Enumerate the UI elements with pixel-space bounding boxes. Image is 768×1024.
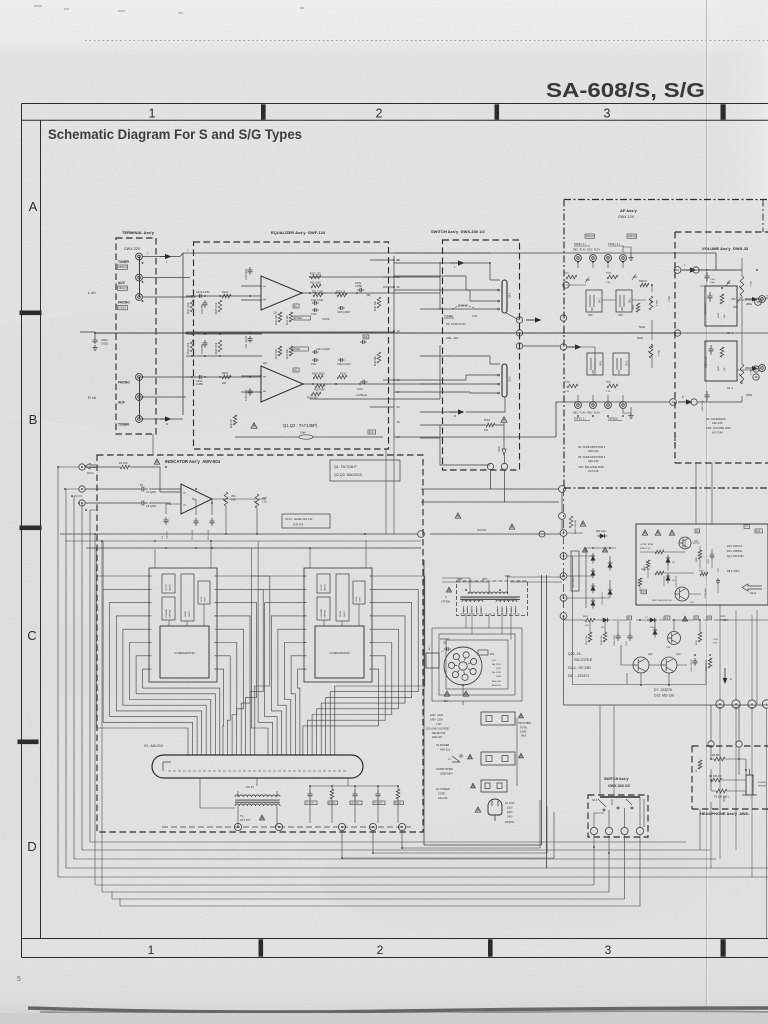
switch 2/2 terminal 1 [590,827,597,834]
resistor R118 200 [313,375,323,379]
junction dots [142,262,144,264]
resistor R286 [700,572,708,576]
node vol in R [691,399,697,405]
boxed 150mV a [585,234,595,238]
terminal assy GWX-329 block [116,238,156,434]
resistor R4b [396,789,400,799]
capacitor C263 [710,552,715,560]
resistor R280 [655,550,664,554]
wire switch L to AF [526,319,535,321]
grid tick left border A/B [20,311,42,316]
wire vol R [697,380,742,402]
wire bus node drops [342,800,554,858]
diode D9 zener [667,573,669,583]
comparator L box [160,626,209,678]
connector node 1 [398,823,405,830]
op-amp Q1 TA7136P [261,276,302,310]
node ind right [418,531,425,538]
grid tick left border C/D [18,740,39,745]
resistor R201 2.2k [566,275,577,279]
wire AUX L output [143,277,190,279]
resistor R3 22k [330,789,334,799]
indicator assy block [97,455,423,832]
fuse FU1 [478,650,488,655]
constant current R [317,597,330,620]
wire out 22 [370,259,394,261]
wire eq mid rail R [186,355,262,357]
pin wires right side R [303,576,425,755]
terminal jack bus L [139,257,141,298]
wire rail 541 [65,540,421,542]
resistor R302 470 [585,618,595,622]
boxed 26 [695,529,699,533]
diode D1 [592,553,594,563]
wire outer loop riser R [252,541,259,589]
headphone node a [708,741,714,747]
wire cap row top [310,785,398,787]
wire term4 down [120,835,640,906]
tape jack top 2 [590,255,597,262]
switch 2/2 terminal 3 [621,827,628,834]
arrow AF R out [567,346,575,348]
wire out 20 [370,406,394,408]
capacitor C106 220p [248,388,253,396]
warning tri sel [444,691,449,696]
rectifier cap C261 [571,551,579,591]
label T1 ATT-508 [446,587,451,592]
arrow R input [160,418,165,420]
connector node 9 [234,823,241,830]
node 31 [755,299,762,306]
wire sw bottom loop [420,425,490,465]
resistor R2 330 2W [711,778,722,782]
level shift B R [353,581,365,604]
node vol in L [693,267,699,273]
resistor R1 330 1W [716,789,727,793]
op-amp Q1 indicator [181,484,212,514]
left rail wire 5 [90,510,686,842]
grid tick top band [495,104,500,119]
diode D4 [592,598,594,608]
terminal jack AUX L [136,274,143,281]
wire mid rail 489 [421,488,559,490]
wire term2 down [102,835,609,892]
wire hp [711,747,746,809]
capacitor C102 2.2/50 [197,375,204,379]
boxed note Q1 TA7318-P [330,460,400,481]
wire TUNER R output [143,418,183,420]
resistor R295 [708,658,712,668]
boxed label 470k [294,316,310,320]
hollow arrow down [502,443,506,455]
capacitor C264 [693,658,698,666]
wire vr drops [166,499,257,534]
resistor R115 100 [311,275,321,279]
warning tri p1 [580,521,585,526]
capacitor C7 0.047 [308,790,313,800]
arrow volume R [678,401,686,403]
dust specks top edge [34,6,304,13]
wire volume to regulator a [695,463,697,524]
switch S3-2 [502,364,507,397]
wire mid rail 502 [421,501,559,503]
wire term1 down [95,835,594,885]
wire rect [567,533,616,608]
wire right col [757,610,767,938]
AF assy block bottom [564,487,768,489]
wire hp downs [711,708,752,877]
wire Q1 inputs [241,286,261,300]
power input enclosure [424,560,547,868]
resistor R105 100k [218,300,222,312]
wire eq left rail [182,253,184,415]
tape jack top 3 [605,255,612,262]
pot VR1-2 500k [649,344,653,358]
top grid band upper line [22,103,768,105]
wire ind top rail [60,533,418,535]
node 16b [516,343,522,349]
transistor Q24 [668,632,681,645]
loudness S9-1 box [705,286,737,326]
outlet third [481,780,507,792]
wire selector leads [462,685,464,705]
wire transformer to loops [466,614,511,640]
wrinkle shading [0,310,440,430]
resistor R205 2.2k [607,275,618,279]
resistor R282 [698,550,702,559]
wire IC top feeds R [310,540,366,568]
wire tape gnd bottom [623,407,631,413]
wire sw down [503,423,505,443]
wire ac34 [430,533,560,535]
wire eq to switch 253 [394,252,490,254]
resistor R101 100k [190,300,194,312]
wire eq to ind a [393,440,395,534]
wire 253 to volume L [681,253,716,270]
terminal jack AUX R [136,394,143,401]
fold line horizontal top [85,40,768,42]
node mid 516 [559,513,566,520]
display tube V1 [152,755,363,778]
left rail wire 1 [58,467,768,877]
wire vr feeds [651,285,653,368]
pot VR2-2 250k [740,364,744,384]
node bottom 2 [748,700,756,708]
pot VR2-1 250k [740,276,744,296]
switch S1 symbol [452,756,460,762]
wire into S3-1 c [394,290,497,301]
terminal jack PHONO R [136,374,143,381]
resistor R122 60k [377,352,381,363]
wire out 18 [383,379,394,381]
warning tri drv [682,616,687,621]
capacitor C148 40p [360,340,367,344]
capacitor C1 volume [705,272,710,282]
resistor R102 100k [190,340,194,352]
arrow L input [160,256,165,258]
wire R to volume [394,402,669,437]
node sw bottom 2 [501,463,507,469]
wire PHONO R output [143,376,196,378]
wire reg internals [640,540,718,594]
wire volume feed [651,306,653,314]
node power 5 [560,595,567,602]
transformer T1 [235,795,280,797]
level shift A L [181,574,194,621]
capacitor C111 0.018 [312,301,319,305]
node AF R1 [560,315,566,321]
wire eq top rail [183,252,716,254]
grid tick top band [261,104,266,119]
resistor R300 [569,516,573,528]
bottom grid band upper line / inner frame bottom [22,938,768,940]
wire comp internal L [169,604,204,626]
switch assy GWX-330 1/2 block [443,240,520,470]
wire Q1 fb rail [302,262,440,310]
boxed label 24.8 [368,430,376,434]
wire selector loop 2 [439,634,515,695]
diode D6b [609,587,611,597]
switch 2/2 contacts [603,809,605,811]
resistor R114 [311,392,321,396]
wire AUX R output [143,396,186,398]
switch 2/2 terminal 2 [605,827,612,834]
boxed 150mV b [627,234,637,238]
resistor R209 [640,283,649,287]
transistor Q23 [661,657,677,673]
wire R row [420,397,505,412]
wire Q2 fb rail [303,345,440,399]
wire out 19 [186,331,394,333]
wire ind in2 [85,488,181,490]
resistor R207 2.2k [567,384,578,388]
wire left rail terminal [95,331,142,333]
AF assy block left [563,200,565,489]
node power 23 [560,573,567,580]
wire into S3-2 c [394,392,497,393]
IC pin ticks R [304,576,372,669]
capacitor C1 [138,487,148,492]
wire reg to nodes [720,605,752,700]
hollow arrow left [85,464,96,469]
warning tri mid b [509,524,514,529]
wire into S3-2 a [394,375,497,380]
pot VR1 0.2k [224,492,228,506]
node AF R2 [560,344,566,350]
node 11 volume [674,267,681,274]
boxed 5.6 [664,616,670,620]
warning triangle ind [154,459,159,464]
capacitor C107 [248,336,253,343]
warning tri p2 [582,547,587,552]
resistor R121 60k [377,297,381,308]
node ind in 1 [79,464,85,470]
top grid band lower line / inner frame top [22,119,768,121]
capacitor C146 0.0047 [338,358,345,362]
wire TUNER L output [143,253,183,257]
pin wires left side L [97,576,220,755]
node 29 [753,366,759,372]
node 12 volume [670,399,677,406]
resistor R4 56k [714,757,725,761]
fuse 15kA [285,436,299,438]
node vol mid [674,330,680,336]
wire q1 out [212,498,266,500]
resistor R285 [638,578,642,586]
node bottom 30 [716,700,724,708]
capacitor C9 0.047 [376,790,381,800]
boxed 27 [627,616,631,620]
grid tick bottom band [721,939,726,956]
connector node 8 [275,823,282,830]
wire out 16 [383,286,394,288]
left rail wire 4 [82,503,710,850]
transistor Q22 [633,657,649,673]
wire selector loop 3 [446,640,508,689]
wire L input row [186,295,261,297]
offset cancel R [317,574,330,593]
warning tri mid a [455,513,460,518]
resistor R109 330 [278,312,282,322]
wire af mid L [566,285,646,300]
wire T1 leads [238,791,277,827]
arrow switch R [450,411,458,413]
right edge light strip [720,0,768,200]
regulator box [636,524,768,605]
capacitor C101 2.2/50 [197,294,204,298]
node AF L [563,282,569,288]
bottom page edge shadow [28,1008,768,1012]
contact dots S3-2 [498,374,500,376]
wire IC top feeds L [155,540,211,568]
resistor R297 5.6k [588,632,592,642]
diode D3 [592,583,594,593]
boxed 20.4 [755,529,762,533]
switch S4-2 [587,353,603,375]
left rail wire 2 [66,489,768,868]
warning tri p3 [602,547,607,552]
connector node 3 [338,823,345,830]
node ind in 2 [79,486,85,492]
capacitor C104 82p [203,340,208,348]
capacitor C114 0.0018 [312,350,319,354]
wire ind in3 [85,503,170,505]
resistor R204 2.2k [607,384,618,388]
switch assy 2/2 block [588,795,648,837]
capacitor C109 2.2/50 [357,288,365,293]
pot VR2 2.2k [255,494,259,508]
resistor R113 680 [311,284,321,288]
contact dots S3-1 [498,289,500,291]
capacitor C270 [716,578,720,585]
capacitor C403 0.056 [708,292,713,302]
node sw bottom 1 [487,463,493,469]
diode D10 zener [654,627,656,637]
resistor R290 [655,571,664,575]
transformer T1 dashed box [457,581,528,616]
wire tape gnd top [623,247,631,255]
tape jack top 1 [575,255,582,262]
boxed C28 [641,590,647,594]
voltage selector S10 [444,647,482,685]
node 22 eq-out [397,259,399,261]
AF right dash border [762,200,764,233]
transistor Q21 [675,587,689,601]
wire rail stubs [58,467,97,510]
resistor R111 22k [289,312,293,322]
wire tube to T1 [200,778,348,808]
capacitor C404 0.056 [709,345,714,355]
grid tick left border B/C [20,526,42,531]
wire driver mid [573,556,707,685]
wire sw22 feeds [600,705,614,795]
warning triangle sw [501,417,507,422]
resistor R120 [337,375,347,379]
resistor R106 100k [218,340,222,352]
wire comp internal R [324,604,359,626]
wire eq right bus [393,256,395,440]
fold line vertical [706,0,708,1024]
wire into S3-2 b [420,383,497,385]
outlet switched [481,712,515,725]
arrow switch L [450,262,458,264]
power plug [488,799,502,815]
outer sheet border left [21,104,23,958]
node 15 switch out L [516,317,522,323]
capacitor C266 [616,633,621,641]
capacitor C110 2.2/50 [360,380,368,385]
wire vol L [699,269,742,271]
diode D2 [592,568,594,578]
headphone jack [746,775,753,795]
wire out 26 [383,276,394,278]
switch 2/2 terminal 4 [636,827,643,834]
terminal jack TUNER R [136,416,143,423]
headphone node b [736,741,742,747]
capacitor C8b 0.047 [353,790,358,800]
left rail wire 3 [74,496,716,859]
diode D1 AAA [597,535,607,537]
capacitor C2 cosvac [444,647,451,651]
comparator R box [315,626,364,678]
wire transformer primary up [442,577,563,594]
wire into S3-1 a [394,263,490,280]
switch S3-3 bar [600,796,640,798]
resistor R119 [337,293,347,297]
pot VR1-1 500k [649,296,653,310]
resistor R103 [222,294,231,298]
warning tri plug [475,807,480,812]
switch S4-1 [586,290,602,312]
grid tick bottom band [488,939,493,956]
wire s33 internal [594,805,640,827]
capacitor C601 0.001 [94,332,96,338]
label PHONO arc [452,306,476,310]
node power 6 [560,553,567,560]
node center a [516,330,522,336]
wire AF R [523,345,560,347]
warning triangle eq [251,423,257,428]
node mid 489 [559,486,566,493]
wire PHONO L output [143,296,196,298]
resistor PH01 100 [486,423,495,427]
power transformer T [468,592,508,594]
capacitor C113 0.0018 [312,308,319,312]
offset cancel L [162,574,175,593]
capacitor C402 470p [705,391,710,401]
wire q22 q23 [621,645,687,685]
node right edge R [759,365,766,372]
